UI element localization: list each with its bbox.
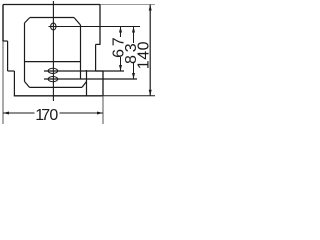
arrowhead 83 top: [132, 27, 135, 33]
arrowhead 170 right: [97, 112, 103, 115]
extension line from middle slot: [44, 70, 124, 72]
top screw hole: [51, 23, 56, 30]
bracket right edge: [80, 25, 82, 79]
svg-text:140: 140: [135, 41, 152, 69]
arrowhead 67 top: [119, 27, 122, 33]
body bottom edge: [14, 95, 103, 97]
center line: [52, 1, 54, 101]
body left edge lower: [13, 71, 15, 96]
right step horizontal: [96, 43, 101, 45]
body right edge upper: [99, 5, 101, 45]
arrowhead 140 bottom: [149, 90, 152, 96]
right step horizontal 2: [96, 70, 103, 72]
top extension line (grey): [100, 4, 155, 6]
plate bottom edge: [30, 86, 83, 88]
plate bottom-left chamfer: [25, 82, 30, 88]
body right edge lower: [102, 71, 104, 96]
extension line from bottom slot: [44, 78, 137, 80]
body right edge middle: [95, 44, 97, 71]
bracket top edge: [30, 17, 74, 19]
dimension line 67 lower segment: [120, 57, 122, 71]
plate bottom-right chamfer: [82, 82, 87, 88]
arrowhead 83 bottom: [132, 73, 135, 79]
arrowhead 170 left: [3, 112, 9, 115]
body left edge middle: [7, 41, 9, 71]
dimension line 140: [149, 5, 151, 96]
dimension line 170 left segment: [3, 112, 35, 114]
dimension line 170 right segment: [60, 112, 104, 114]
body left edge upper: [2, 5, 4, 42]
bottom screw slot: [48, 77, 58, 82]
dimension line 83 lower segment: [133, 63, 135, 79]
arrowhead 140 top: [149, 5, 152, 11]
middle screw slot: [48, 68, 58, 73]
body top edge: [3, 4, 100, 6]
dimension line 83 upper segment: [133, 27, 135, 44]
arrowhead 67 bottom: [119, 65, 122, 71]
bracket chamfer left: [25, 18, 30, 24]
plate top edge: [25, 61, 81, 63]
left step horizontal: [3, 40, 8, 42]
bracket chamfer right: [74, 18, 81, 26]
svg-text:0: 0: [49, 107, 58, 124]
bracket left edge: [24, 23, 26, 82]
left step horizontal 2: [8, 70, 15, 72]
plate right edge: [86, 70, 88, 96]
bottom extension line for 140: [103, 95, 155, 97]
extension line from top hole: [49, 26, 141, 28]
right extension line for 170: [102, 96, 104, 124]
left extension line for 170: [2, 41, 4, 124]
dimension line 67 upper segment: [120, 27, 122, 38]
